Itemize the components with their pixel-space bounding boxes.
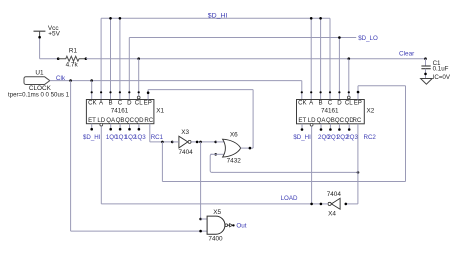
svg-text:B: B xyxy=(108,100,112,107)
node RC2 feedback junction xyxy=(357,171,360,174)
svg-text:tper=0.1ms 0 0 50us 1: tper=0.1ms 0 0 50us 1 xyxy=(8,91,70,98)
X2 top pin connection dots xyxy=(301,91,360,93)
wire EP2 rail xyxy=(358,85,406,87)
74161 counter X1 body xyxy=(86,100,153,124)
wire Clear down to C1 xyxy=(425,59,427,66)
wire C1 to ground xyxy=(425,69,427,79)
label X2 bottom pin names xyxy=(298,117,361,124)
wire X6 output up to EP1 xyxy=(252,90,254,149)
svg-text:QC: QC xyxy=(335,117,345,124)
node X1 QD pin end xyxy=(138,128,141,131)
wire RC1 branch down xyxy=(161,142,163,182)
svg-text:QB: QB xyxy=(116,117,125,124)
node X2 LD to LOAD junction xyxy=(310,203,313,206)
X2 CLR pin bubble xyxy=(347,96,350,99)
or-gate X6 7432 xyxy=(223,139,241,157)
node B1 top junction xyxy=(109,17,112,20)
svg-text:$D_LO: $D_LO xyxy=(358,35,378,42)
svg-text:QA: QA xyxy=(106,117,116,124)
svg-text:$D_HI: $D_HI xyxy=(293,134,311,141)
X1 CLR pin bubble xyxy=(137,96,140,99)
svg-text:QC: QC xyxy=(125,117,135,124)
wire RC1 to X3 input xyxy=(150,141,173,143)
node X1 EP pin dot xyxy=(147,92,150,95)
wire Clear rail xyxy=(86,58,426,60)
wire X2 EP stub xyxy=(357,86,359,100)
svg-text:R1: R1 xyxy=(69,47,78,54)
svg-text:$D_HI: $D_HI xyxy=(208,12,228,19)
wire EP1 rail xyxy=(148,89,253,91)
node X2 QD pin end xyxy=(348,128,351,131)
node X3 output pin end xyxy=(196,141,199,144)
X2 QC stub xyxy=(338,124,340,130)
svg-text:74161: 74161 xyxy=(321,108,339,115)
svg-text:0.1uF: 0.1uF xyxy=(433,65,449,72)
node X1 QC pin end xyxy=(128,128,131,131)
svg-text:7404: 7404 xyxy=(179,149,194,156)
node X6 upper input pin end xyxy=(214,141,217,144)
wire X2 CK drop xyxy=(301,81,303,100)
label X1 bottom pin names xyxy=(88,117,154,124)
X2 ET stub to $D_HI xyxy=(301,124,303,130)
wire Vcc to Clear rail xyxy=(39,37,41,59)
X1 QB stub xyxy=(119,124,121,130)
wire X3 output down to X5 xyxy=(200,142,202,219)
svg-text:X6: X6 xyxy=(230,131,238,138)
svg-text:X4: X4 xyxy=(328,210,336,217)
capacitor C1 xyxy=(421,65,430,67)
wire X1 C riser xyxy=(119,18,121,99)
node X3 input pin end xyxy=(171,141,174,144)
svg-text:X3: X3 xyxy=(181,129,189,136)
node X2 ET pin end xyxy=(301,128,304,131)
node Out pin dot xyxy=(232,224,234,226)
node C1 top junction xyxy=(119,17,122,20)
svg-text:RC1: RC1 xyxy=(151,134,164,141)
svg-text:7400: 7400 xyxy=(208,235,223,242)
svg-text:ET: ET xyxy=(88,117,96,124)
svg-text:X5: X5 xyxy=(213,209,221,216)
wire X5 lower input rail from Clk xyxy=(71,230,208,232)
svg-text:RC: RC xyxy=(352,117,361,124)
node R1 left pin xyxy=(57,57,60,60)
node Clk to X1 CK junction xyxy=(90,79,93,82)
svg-text:+5V: +5V xyxy=(48,30,60,37)
svg-text:4.7k: 4.7k xyxy=(66,61,79,68)
wire $D_LO rail xyxy=(129,37,356,39)
wire X1 RC down xyxy=(149,124,151,142)
X2 LOAD pin bubble xyxy=(310,123,313,126)
74161 counter X2 body xyxy=(297,100,365,124)
svg-text:LD: LD xyxy=(97,117,105,124)
wire X3 output lead xyxy=(191,141,216,143)
node X6 lower input pin end xyxy=(214,153,217,156)
wire X1 B riser xyxy=(110,18,112,99)
wire X1 A riser xyxy=(100,18,102,99)
svg-text:QB: QB xyxy=(326,117,335,124)
wire Clk down to X5 xyxy=(70,81,72,232)
wire X1 EP stub xyxy=(147,90,149,100)
svg-text:7404: 7404 xyxy=(327,191,342,198)
wire X1 CLR drop xyxy=(138,59,140,96)
X1 QA stub xyxy=(110,124,112,130)
svg-text:CK: CK xyxy=(88,100,96,107)
wire X4 output lead xyxy=(321,203,328,205)
node X2 QC pin end xyxy=(338,128,341,131)
wire X2 B riser xyxy=(320,18,322,99)
node X3 output to X5 branch xyxy=(199,141,202,144)
svg-text:B: B xyxy=(319,100,323,107)
node X5 lower input pin end xyxy=(199,230,202,233)
svg-text:CL: CL xyxy=(345,100,353,107)
svg-text:Out: Out xyxy=(236,223,246,230)
node X1 ET pin end xyxy=(90,128,93,131)
wire X2 RC down to X4 xyxy=(357,124,359,204)
wire X3 input lead xyxy=(172,141,179,143)
node X2 EP pin dot xyxy=(357,91,360,94)
wire X1 LOAD drop xyxy=(100,126,102,204)
wire X5 upper input lead xyxy=(201,218,208,220)
node X5 upper input pin end xyxy=(199,218,202,221)
node B2 top junction xyxy=(319,17,322,20)
label X1 top pin names xyxy=(88,100,152,107)
wire X6 lower input feedback down xyxy=(210,154,213,172)
svg-text:CK: CK xyxy=(298,100,306,107)
svg-text:C: C xyxy=(328,100,333,107)
wire X6 lower input lead xyxy=(210,153,224,155)
power Vcc symbol xyxy=(34,30,46,32)
wire X2 LOAD drop xyxy=(311,126,313,204)
svg-text:RC: RC xyxy=(144,117,153,124)
X1 LOAD pin bubble xyxy=(100,123,103,126)
wire X2 CLR drop xyxy=(348,59,350,96)
resistor R1 xyxy=(58,56,86,61)
wire X4 input lead from RC2 xyxy=(346,203,358,205)
svg-text:EP: EP xyxy=(144,100,152,107)
node RC1 branch junction xyxy=(161,141,164,144)
svg-text:EP: EP xyxy=(354,100,362,107)
node X2 QB pin end xyxy=(329,128,332,131)
svg-text:X1: X1 xyxy=(156,108,164,115)
svg-text:7432: 7432 xyxy=(227,158,242,165)
wire X6 output lead xyxy=(241,147,253,149)
node A2 top junction xyxy=(310,17,313,20)
ground xyxy=(421,79,433,85)
wire RC2 feedback rail xyxy=(213,171,359,173)
svg-text:X2: X2 xyxy=(367,108,375,115)
wire $D_HI top rail xyxy=(101,17,330,19)
wire X2 A riser xyxy=(310,18,312,99)
svg-text:LD: LD xyxy=(308,117,316,124)
node D2 junction xyxy=(338,36,341,39)
node Clk to X5 branch xyxy=(69,79,72,82)
wire X2 D riser xyxy=(338,38,340,100)
node Clear to C1 junction xyxy=(424,57,427,60)
wire X1 CK drop xyxy=(91,81,93,100)
X2 QA stub xyxy=(320,124,322,130)
wire X1 D riser xyxy=(128,38,130,100)
svg-text:LOAD: LOAD xyxy=(281,195,298,202)
node X6 output pin end xyxy=(249,147,252,150)
inverter X4 7404 xyxy=(331,198,340,209)
node C1 ground pin dot xyxy=(424,73,427,76)
nand-gate X5 7400 xyxy=(207,216,225,234)
svg-text:U1: U1 xyxy=(35,69,44,76)
svg-text:QA: QA xyxy=(317,117,327,124)
svg-text:1Q3: 1Q3 xyxy=(134,134,146,141)
svg-text:74161: 74161 xyxy=(111,108,129,115)
wire Vcc corner to R1 xyxy=(40,58,59,60)
svg-text:RC2: RC2 xyxy=(364,134,377,141)
wire RC1 to EP2 rail xyxy=(162,181,405,183)
node Clear to X2 CLR junction xyxy=(348,57,351,60)
clock source U1 body xyxy=(24,77,50,85)
node X4 output pin end xyxy=(320,203,323,206)
node X2 QA pin end xyxy=(320,128,323,131)
node X1 QB pin end xyxy=(119,128,122,131)
wire X5 output lead xyxy=(228,224,230,226)
svg-text:ET: ET xyxy=(298,117,306,124)
svg-text:2Q3: 2Q3 xyxy=(346,134,358,141)
wire EP2 riser right xyxy=(405,86,407,182)
svg-text:CL: CL xyxy=(135,100,143,107)
wire X2 C riser xyxy=(329,18,331,99)
svg-text:Clear: Clear xyxy=(399,50,415,57)
svg-text:QD: QD xyxy=(134,117,144,124)
svg-text:C: C xyxy=(118,100,123,107)
svg-text:$D_HI: $D_HI xyxy=(83,134,101,141)
X1 QD stub xyxy=(138,124,140,130)
node X4 input pin end xyxy=(345,203,348,206)
X2 QB stub xyxy=(329,124,331,130)
X1 top pin connection dots xyxy=(91,91,150,93)
node Vcc pin dot xyxy=(38,36,41,39)
node Clear to X1 CLR junction xyxy=(137,57,140,60)
Out connector arrow xyxy=(230,224,233,227)
wire LOAD rail xyxy=(101,203,321,205)
X1 ET stub to $D_HI xyxy=(91,124,93,130)
svg-text:IC=0V: IC=0V xyxy=(433,74,451,81)
node R1 right pin xyxy=(85,57,88,60)
wire Clk rail xyxy=(50,80,302,82)
svg-text:D: D xyxy=(127,100,132,107)
X1 QC stub xyxy=(129,124,131,130)
inverter X3 7404 xyxy=(179,136,188,148)
node X1 QA pin end xyxy=(109,128,112,131)
label X2 top pin names xyxy=(298,100,362,107)
svg-text:D: D xyxy=(337,100,342,107)
X2 QD stub xyxy=(348,124,350,130)
wire X6 upper input lead xyxy=(216,141,225,143)
